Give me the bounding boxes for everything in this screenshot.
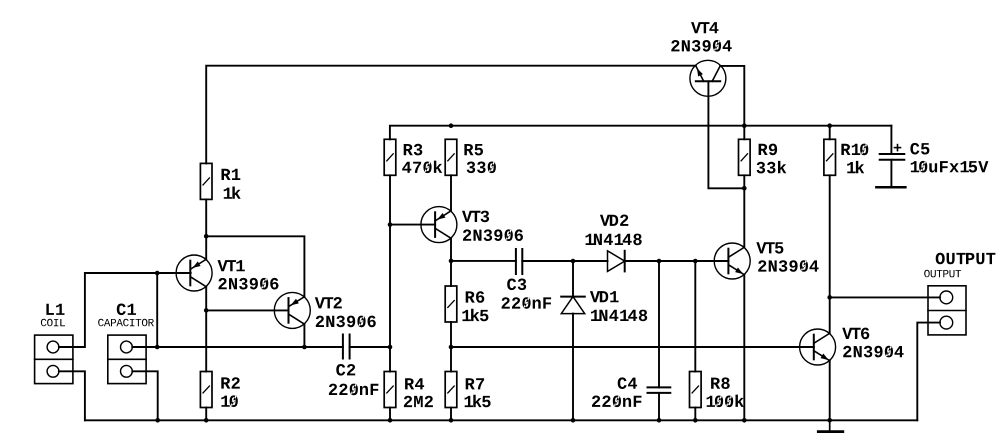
label OUTPUT	[924, 253, 995, 278]
junction R5 top on +rail	[449, 123, 454, 128]
wire R5 bottom to VT3 emitter	[450, 175, 452, 211]
resistor R3 470k	[384, 139, 396, 175]
wire VD1 cathode up to detector wire	[572, 261, 574, 297]
resistor R5 330	[445, 139, 457, 175]
wire C5 top stub	[890, 126, 892, 154]
label R8	[707, 377, 744, 407]
wire R6 bottom to R7 top through tap node	[450, 322, 452, 372]
label C1	[98, 304, 154, 327]
junction R6/R7 tap node	[449, 345, 454, 350]
wire R7 bottom to ground rail	[450, 408, 452, 421]
wire R6/R7 tap to VT6 base	[451, 346, 814, 348]
wire VT2 base lead	[206, 309, 288, 311]
label R9	[757, 144, 787, 174]
wire C5 bottom plate to ground bar	[890, 160, 892, 186]
wire R6 top stub	[450, 261, 452, 286]
label VT5	[756, 242, 818, 272]
label VD2	[586, 215, 642, 246]
resistor R1 1k	[200, 163, 212, 199]
wire L1 pin2 to ground rail	[59, 371, 85, 420]
transistor VT2 2N3906 PNP	[274, 292, 310, 328]
capacitor C5 10uFx15V polarized	[880, 145, 905, 160]
junction VT6 collector / output node	[827, 295, 832, 300]
junction R7 bottom on ground rail	[449, 418, 454, 423]
label C2	[329, 364, 379, 395]
resistor R6 1k5	[445, 286, 457, 322]
resistor R10 1k	[824, 139, 836, 175]
junction VT6 emitter / ground symbol	[827, 418, 832, 423]
ground bar below C5	[876, 186, 905, 189]
junction R9 top on +rail	[742, 123, 747, 128]
wire R2 bottom to ground rail	[205, 408, 207, 421]
label VT3	[462, 211, 523, 241]
connector L1 COIL	[35, 335, 73, 384]
wire C1 node to VT2 collector to C2	[157, 346, 343, 348]
junction R10 top on +rail	[827, 123, 832, 128]
junction R4 bottom on ground rail	[388, 418, 393, 423]
wire VT3 base lead	[390, 224, 435, 226]
resistor R9 33k	[739, 139, 751, 175]
junction C4 bottom on ground rail	[657, 418, 662, 423]
junction VT1 emitter node	[204, 234, 209, 239]
junction C4 top node	[657, 259, 662, 264]
wire VT1 emitter lead	[205, 236, 207, 259]
wire R4 bottom to ground rail	[389, 408, 391, 421]
wire R9 bottom to VT5 collector	[743, 175, 745, 247]
wire VT3 collector to R6 top node	[450, 239, 452, 261]
wire VT6 emitter to ground rail	[829, 360, 831, 420]
capacitor C4 220nF	[648, 387, 671, 393]
wire C4 top to detector wire	[658, 261, 660, 387]
junction C1 pin1 node	[155, 345, 160, 350]
junction VD1 cathode node	[571, 259, 576, 264]
label R7	[465, 378, 491, 407]
label L1	[41, 304, 65, 327]
wire VT4 emitter feed from R1 top	[206, 66, 696, 164]
junction VT3 collector node	[449, 259, 454, 264]
junction VT2 base node	[204, 308, 209, 313]
transistor VT3 2N3906 PNP	[421, 207, 457, 243]
wire +rail y=125.7	[390, 126, 892, 140]
resistor R4 2M2	[384, 372, 396, 408]
label VT6	[842, 328, 903, 358]
label C3	[502, 279, 551, 309]
wire ground rail	[85, 419, 917, 421]
label R6	[462, 291, 488, 321]
connector C1 CAPACITOR	[108, 335, 146, 384]
junction VT5 emitter on ground rail	[742, 418, 747, 423]
wire R8 top to detector wire	[694, 261, 696, 372]
wire R8 bottom to ground rail	[694, 408, 696, 421]
wire C1 pin2 to ground rail	[132, 371, 157, 420]
wire C2 right to R3 column	[350, 346, 390, 348]
junction R8 top node	[693, 259, 698, 264]
transistor VT1 2N3906 PNP	[176, 255, 212, 291]
junction R9 bottom / VT4 base node	[742, 186, 747, 191]
junction VT1 base node	[155, 271, 160, 276]
transistor VT4 2N3904 NPN rotated	[690, 60, 726, 96]
resistor R8 100k	[690, 372, 702, 408]
capacitor C2 220nF	[343, 335, 350, 359]
connector OUTPUT	[928, 286, 966, 335]
wire C4 bottom to ground rail	[658, 393, 660, 420]
wire VT4 collector to +rail	[720, 66, 744, 126]
junction C1 pin2 on ground rail	[155, 418, 160, 423]
label R10	[841, 144, 868, 174]
label R5	[464, 144, 496, 173]
label R2	[221, 377, 240, 407]
wire R9 top stub	[743, 126, 745, 140]
wire R1 bottom to VT1 emitter node	[205, 199, 207, 236]
wire VT1 emitter node to VT2 emitter	[206, 236, 304, 296]
label VT1	[218, 260, 279, 289]
ground symbol at bottom rail	[818, 420, 843, 431]
label C4	[592, 377, 642, 407]
transistor VT6 2N3904 NPN	[800, 329, 836, 365]
label R4	[404, 378, 433, 407]
wire VT1 base node down to C1 node	[156, 273, 158, 347]
junction VT3 base node	[388, 222, 393, 227]
wire connector pin 2 return to ground rail	[917, 323, 940, 421]
wire VD2 cathode to VT5 base	[625, 260, 729, 262]
capacitor C3 220nF	[516, 249, 522, 274]
diode VD2 1N4148 horizontal	[608, 251, 625, 272]
wire R10 bottom to VT6 collector node	[829, 175, 831, 332]
label R1	[222, 169, 241, 199]
wire VT1 collector down to R2 (crosses audio wire)	[205, 287, 207, 372]
junction R8 bottom on ground rail	[693, 418, 698, 423]
resistor R7 1k5	[445, 372, 457, 408]
junction R2 bottom on ground rail	[204, 418, 209, 423]
wire VT2 collector lead	[303, 324, 305, 347]
diode VD1 1N4148 vertical cathode-up	[561, 297, 585, 314]
label VT4	[671, 22, 731, 51]
wire R10 top stub	[829, 126, 831, 140]
wire VT4 base down to R9 bottom node	[708, 81, 744, 188]
transistor VT5 2N3904 NPN	[714, 243, 750, 279]
wire C3 to VD2 anode	[522, 260, 607, 262]
label R3	[402, 144, 442, 173]
wire L1 pin1 to VT1 base	[59, 273, 191, 347]
wire R3 column through VT3 base node and C2 node to R4	[389, 175, 391, 371]
wire VT5 emitter to ground rail	[743, 275, 745, 420]
label C5	[910, 143, 988, 173]
junction VT2 collector node	[302, 345, 307, 350]
junction C2/R4 node	[388, 345, 393, 350]
label VT2	[315, 297, 376, 327]
wire C1 pin1 stub	[132, 346, 157, 348]
label VD1	[590, 291, 647, 321]
resistor R2 10	[200, 372, 212, 408]
wire output node to connector pin 1	[830, 296, 940, 298]
wire detector node to C3	[451, 260, 516, 262]
junction VD1 anode on ground rail	[571, 418, 576, 423]
wire VD1 anode to ground rail	[572, 314, 574, 421]
